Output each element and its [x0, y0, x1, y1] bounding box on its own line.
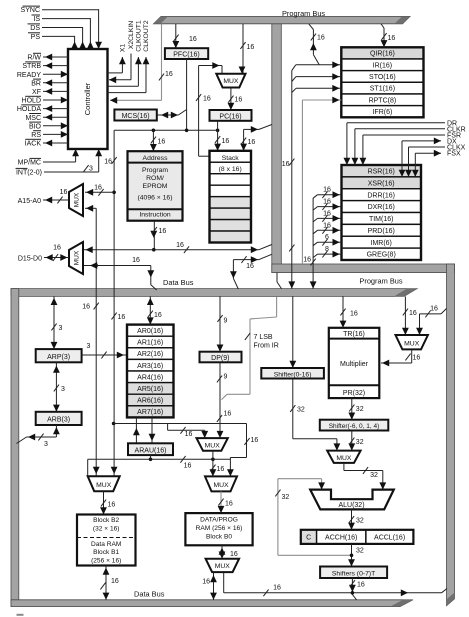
svg-text:32: 32 [282, 494, 290, 501]
wire ACC out [348, 544, 364, 567]
svg-text:16: 16 [203, 96, 211, 103]
signal PS [28, 33, 78, 49]
svg-text:16: 16 [323, 187, 331, 194]
svg-text:HOLD: HOLD [22, 98, 41, 105]
signal READY [17, 71, 68, 79]
svg-text:3: 3 [61, 386, 65, 393]
mux block B2 [88, 476, 120, 491]
svg-text:SYNC: SYNC [21, 7, 40, 14]
program ROM block [128, 151, 183, 221]
wire data bus to tr mux [416, 306, 446, 336]
svg-text:MUX: MUX [336, 455, 352, 462]
svg-text:From IR: From IR [254, 343, 279, 350]
svg-text:PFC(16): PFC(16) [173, 52, 199, 59]
svg-text:AR5(16): AR5(16) [137, 386, 163, 393]
wire DP out [217, 362, 232, 438]
mux bottom data [206, 559, 240, 572]
signal A15-A0 [18, 189, 69, 205]
svg-text:PC(16): PC(16) [219, 113, 241, 120]
svg-text:X1: X1 [120, 44, 127, 53]
signal IACK [25, 139, 68, 147]
svg-text:8: 8 [325, 246, 329, 253]
svg-text:BR: BR [31, 80, 41, 87]
wire stack to program bus [240, 125, 272, 151]
program/data bus bar (middle) [11, 289, 417, 297]
svg-text:16: 16 [251, 437, 259, 444]
svg-text:MCS(16): MCS(16) [122, 113, 150, 120]
signal DR [344, 120, 458, 165]
mux alu [327, 451, 360, 463]
block shifter -6014 [320, 420, 389, 431]
svg-text:16: 16 [82, 304, 90, 311]
wire ARP to ARB [53, 362, 65, 412]
wire data line to program bus [84, 242, 272, 253]
register DP [200, 352, 242, 363]
svg-text:16: 16 [158, 139, 166, 146]
signal CLKOUT1 [108, 20, 143, 86]
data bus bottom slab [11, 600, 413, 607]
svg-text:16: 16 [159, 228, 167, 235]
svg-text:16: 16 [357, 582, 365, 589]
svg-text:AR3(16): AR3(16) [137, 363, 163, 370]
svg-text:32: 32 [370, 472, 378, 479]
wire PR out [348, 398, 363, 420]
signal R/W [27, 53, 68, 61]
signal HOLD [22, 96, 68, 104]
block shifter 0-16 [261, 368, 324, 379]
svg-text:32: 32 [356, 439, 364, 446]
signal X2/CLKIN [109, 21, 135, 83]
svg-text:READY: READY [17, 72, 41, 79]
svg-text:3: 3 [44, 441, 48, 448]
signal BIO [29, 122, 68, 130]
svg-text:16: 16 [430, 306, 438, 313]
wire AR to ARAU left [133, 417, 140, 443]
mux data out [69, 242, 83, 274]
signal HOLDA [17, 105, 68, 113]
svg-text:Shifter(-6, 0, 1, 4): Shifter(-6, 0, 1, 4) [329, 423, 380, 430]
mux program counter [216, 74, 245, 88]
svg-text:STO(16): STO(16) [369, 74, 396, 81]
svg-text:RS: RS [31, 132, 41, 139]
svg-text:Data Bus: Data Bus [163, 278, 194, 287]
svg-text:IMR(6): IMR(6) [371, 240, 392, 247]
svg-text:16: 16 [104, 159, 112, 166]
svg-text:Block B2: Block B2 [93, 517, 119, 524]
svg-text:16: 16 [108, 502, 116, 509]
signal DX [399, 138, 457, 177]
wire bottom data line [224, 572, 447, 596]
svg-text:16: 16 [60, 189, 68, 196]
wire PC to stack [214, 121, 229, 151]
signal FSR [360, 133, 462, 166]
wire mux to ALU [344, 463, 386, 490]
wire bus to tr mux [402, 296, 417, 335]
data bus top arm slab [272, 264, 455, 273]
wire to address rom [150, 130, 165, 151]
register PC [210, 110, 252, 121]
wire ARB to data bus [17, 425, 60, 448]
signal MP/MC [18, 149, 79, 167]
block B0 RAM [185, 513, 252, 545]
signal STRB [22, 62, 68, 70]
svg-text:16: 16 [111, 578, 119, 585]
svg-text:6: 6 [325, 234, 329, 241]
wire to RPTC [302, 97, 341, 264]
data bus left slab [11, 289, 19, 607]
register ARB [36, 412, 82, 425]
svg-text:IS: IS [33, 16, 40, 23]
svg-text:IFR(6): IFR(6) [372, 109, 392, 116]
svg-text:MUX: MUX [213, 482, 229, 489]
svg-text:Program: Program [142, 167, 168, 174]
wire shifters to data bus [349, 578, 365, 600]
wire shifter out [348, 431, 363, 451]
svg-text:MUX: MUX [96, 482, 112, 489]
signal DS [28, 24, 87, 49]
svg-text:AR7(16): AR7(16) [137, 409, 163, 416]
wire address line [114, 129, 219, 133]
caption fragment [17, 614, 24, 616]
svg-text:MUX: MUX [205, 442, 221, 449]
svg-text:RPTC(8): RPTC(8) [369, 97, 397, 104]
svg-text:16: 16 [350, 311, 358, 318]
svg-text:16: 16 [202, 579, 210, 586]
svg-text:16: 16 [230, 551, 238, 558]
wire ACC feedback [275, 479, 351, 556]
svg-text:16: 16 [409, 310, 417, 317]
svg-text:AR1(16): AR1(16) [137, 340, 163, 347]
wire to TIM [313, 210, 341, 222]
block B2/B1 RAM [77, 515, 136, 566]
svg-text:9: 9 [224, 318, 228, 325]
svg-text:16: 16 [225, 501, 233, 508]
svg-text:STRB: STRB [22, 63, 41, 70]
svg-text:QIR(16): QIR(16) [370, 51, 395, 58]
svg-text:16: 16 [248, 139, 256, 146]
wire 7 LSB from IR [222, 296, 277, 399]
wire AR to ARAU right [149, 417, 156, 443]
svg-text:MUX: MUX [404, 341, 420, 348]
svg-text:16: 16 [282, 161, 290, 168]
svg-text:Stack: Stack [222, 155, 240, 162]
svg-text:ARB(3): ARB(3) [47, 417, 70, 424]
label 7 LSB [254, 334, 279, 350]
wire V2 to A mux [85, 185, 114, 196]
wire bus to DP [217, 296, 228, 351]
svg-text:ACCL(16): ACCL(16) [374, 535, 405, 542]
wire tr mux to multiplier [381, 349, 420, 366]
svg-text:DATA/PROG: DATA/PROG [200, 517, 238, 524]
accumulator C/ACCH/ACCL [301, 530, 414, 544]
ALU [310, 490, 394, 510]
register file AR0-AR7 [127, 325, 174, 418]
svg-text:16: 16 [176, 242, 184, 249]
svg-text:ARAU(16): ARAU(16) [135, 447, 167, 454]
svg-text:HOLDA: HOLDA [17, 106, 41, 113]
wire MCS link [157, 110, 187, 119]
svg-text:GREG(8): GREG(8) [367, 252, 396, 259]
svg-text:IACK: IACK [25, 141, 42, 148]
svg-text:Shifters (0-7)T: Shifters (0-7)T [332, 570, 375, 577]
svg-text:(8 x 16): (8 x 16) [219, 166, 242, 173]
wire B1 to data bus [100, 566, 118, 600]
wire local data line [88, 456, 231, 476]
svg-text:Block B1: Block B1 [93, 549, 119, 556]
svg-text:PR(32): PR(32) [343, 390, 365, 397]
register file QIR/IR/ST [341, 47, 423, 117]
wire ALU out [348, 509, 364, 529]
svg-text:16: 16 [189, 36, 197, 43]
label data bus bottom [134, 590, 165, 599]
wire stack pop to mux [196, 62, 222, 156]
wire IR join down [282, 70, 295, 288]
svg-text:X2CLKIN: X2CLKIN [128, 21, 135, 49]
wire instruction out [150, 221, 166, 252]
block ARAU [128, 443, 173, 455]
register file RSR..GREG [342, 165, 422, 260]
signal CLKOUT2 [108, 20, 151, 92]
wire to DRR [313, 187, 341, 199]
signal D15-D0 [18, 245, 69, 263]
wire bus to PFC [172, 24, 196, 48]
svg-text:XF: XF [32, 89, 41, 96]
wire register group down [303, 198, 316, 289]
block shifters 0-7 [320, 567, 387, 579]
svg-text:R/W: R/W [27, 55, 41, 62]
svg-text:TR(16): TR(16) [343, 331, 365, 338]
svg-text:16: 16 [247, 44, 255, 51]
svg-text:16: 16 [323, 199, 331, 206]
wire AR data line [114, 424, 259, 477]
svg-text:16: 16 [413, 355, 421, 362]
svg-text:16: 16 [53, 245, 61, 252]
wire mux to B2 [100, 491, 115, 514]
wire bus to mux [239, 24, 255, 74]
wire mux to B0 [218, 491, 233, 513]
svg-text:16: 16 [323, 210, 331, 217]
svg-text:Block B0: Block B0 [206, 534, 232, 541]
svg-text:Instruction: Instruction [139, 212, 171, 219]
signal RS [31, 131, 68, 139]
block TR/Multiplier/PR [329, 328, 380, 398]
svg-text:(4096 × 16): (4096 × 16) [138, 195, 173, 202]
svg-text:16: 16 [185, 431, 193, 438]
svg-text:MUX: MUX [74, 250, 81, 265]
svg-text:CLKOUT2: CLKOUT2 [143, 20, 150, 52]
label program bus middle [359, 277, 402, 286]
svg-text:CLKOUT1: CLKOUT1 [136, 20, 143, 52]
signal SYNC [21, 6, 102, 49]
wire to IMR [313, 234, 341, 246]
svg-text:16: 16 [235, 97, 243, 104]
wire to ST1 [292, 85, 342, 93]
svg-text:MUX: MUX [215, 563, 231, 570]
wire slab link [277, 273, 282, 289]
svg-text:16: 16 [303, 257, 311, 264]
svg-text:16: 16 [388, 35, 396, 42]
svg-text:BIO: BIO [29, 123, 42, 130]
mux multiplier [396, 335, 428, 349]
svg-text:MSC: MSC [25, 115, 41, 122]
wire to STO [292, 73, 342, 81]
mux address out [69, 184, 83, 216]
svg-text:16: 16 [246, 263, 254, 270]
svg-text:32: 32 [356, 518, 364, 525]
svg-text:16: 16 [184, 463, 192, 470]
wire V1 line [82, 205, 99, 476]
signal IS [32, 15, 94, 49]
svg-text:ROM/: ROM/ [146, 175, 164, 182]
svg-text:16: 16 [118, 314, 126, 321]
wire bus to AR file [147, 296, 162, 324]
mux ar/dp [197, 438, 228, 451]
svg-text:RSR(16): RSR(16) [368, 169, 395, 176]
wire IR bus link [309, 24, 325, 65]
wire PFC down [186, 59, 188, 130]
signal BR [31, 79, 68, 87]
svg-text:16: 16 [217, 466, 225, 473]
svg-text:DRR(16): DRR(16) [367, 192, 395, 199]
wire AR branch to mux [168, 424, 208, 439]
register ARP [36, 349, 82, 362]
program bus slab (vertical center) [272, 20, 282, 273]
svg-text:Program Bus: Program Bus [359, 277, 402, 286]
svg-text:FSX: FSX [447, 151, 461, 158]
wire B0 to mux [219, 545, 238, 558]
stack block [210, 151, 252, 243]
svg-text:Multiplier: Multiplier [340, 361, 369, 368]
svg-text:3: 3 [59, 325, 63, 332]
svg-text:EPROM: EPROM [143, 183, 168, 190]
signal CLKR [352, 126, 466, 165]
wire to IR [292, 61, 342, 70]
label data bus middle [163, 278, 194, 287]
wire V2 line [104, 130, 125, 476]
wire data to D mux [84, 257, 157, 290]
program bus slab (top) [154, 16, 411, 23]
svg-text:ST1(16): ST1(16) [370, 86, 395, 93]
signal MSC [25, 114, 68, 122]
controller U1 [68, 49, 108, 149]
svg-text:AR2(16): AR2(16) [137, 351, 163, 358]
register MCS [114, 110, 156, 121]
svg-text:9: 9 [224, 374, 228, 381]
svg-text:RAM (256 × 16): RAM (256 × 16) [196, 525, 243, 532]
svg-text:AR4(16): AR4(16) [137, 374, 163, 381]
svg-text:DS: DS [30, 25, 40, 32]
wire shifter016 out [290, 379, 340, 451]
signal X1 [108, 44, 127, 73]
svg-text:XSR(16): XSR(16) [368, 180, 395, 187]
svg-text:16: 16 [222, 138, 230, 145]
svg-text:Data RAM: Data RAM [91, 541, 121, 548]
wire bottom mux to bus [202, 572, 217, 600]
signal FSX [412, 150, 461, 177]
data bus right slab [447, 264, 455, 606]
svg-text:PRD(16): PRD(16) [368, 228, 395, 235]
register PFC [165, 48, 208, 59]
svg-text:16: 16 [224, 411, 232, 418]
svg-text:32: 32 [356, 406, 364, 413]
svg-text:3: 3 [89, 166, 93, 173]
label program bus top [282, 9, 325, 18]
wire to GREG [313, 246, 341, 258]
svg-text:ARP(3): ARP(3) [47, 354, 70, 361]
svg-text:C: C [306, 535, 311, 542]
wire ARP to AR file [82, 343, 127, 358]
svg-text:DXR(16): DXR(16) [368, 204, 395, 211]
svg-text:32: 32 [356, 548, 364, 555]
svg-text:TIM(16): TIM(16) [369, 216, 394, 223]
wire to DXR [313, 199, 341, 211]
signal XF [32, 88, 68, 96]
mux block B0 [205, 476, 237, 491]
wire bus to TR [340, 296, 358, 327]
svg-text:MP/MC: MP/MC [18, 160, 41, 167]
svg-text:INT(2-0): INT(2-0) [16, 170, 42, 177]
wire armux out [210, 451, 225, 477]
svg-text:16: 16 [94, 185, 102, 192]
svg-text:16: 16 [273, 585, 281, 592]
wire bus to shifter016 [289, 296, 296, 368]
wire to PRD [313, 222, 341, 234]
svg-text:A15-A0: A15-A0 [18, 198, 41, 205]
svg-text:16: 16 [165, 71, 173, 78]
svg-text:PS: PS [31, 34, 41, 41]
wire bus to ARP [51, 296, 63, 349]
svg-text:Address: Address [143, 155, 169, 162]
svg-text:16: 16 [132, 257, 140, 264]
svg-text:ALU(32): ALU(32) [338, 502, 364, 509]
svg-text:16: 16 [317, 35, 325, 42]
svg-text:Program Bus: Program Bus [282, 9, 325, 18]
svg-text:32: 32 [297, 407, 305, 414]
svg-text:D15-D0: D15-D0 [18, 255, 42, 262]
svg-text:MUX: MUX [223, 78, 239, 85]
svg-text:16: 16 [323, 222, 331, 229]
svg-text:MUX: MUX [74, 192, 81, 207]
wire mux to PC [228, 88, 243, 111]
svg-text:Controller: Controller [83, 82, 92, 115]
svg-text:DP(9): DP(9) [211, 355, 229, 362]
svg-text:7 LSB: 7 LSB [254, 334, 273, 341]
svg-text:3: 3 [87, 343, 91, 350]
svg-text:ACCH(16): ACCH(16) [325, 535, 357, 542]
wire ARAU out [150, 455, 152, 459]
svg-text:IR(16): IR(16) [373, 62, 392, 69]
svg-text:Data Bus: Data Bus [134, 590, 165, 599]
signal CLKX [405, 145, 466, 177]
wire data bus branch [230, 254, 272, 289]
wire bus to QIR [381, 24, 396, 48]
svg-text:(256 × 16): (256 × 16) [91, 558, 121, 565]
svg-text:16: 16 [154, 312, 162, 319]
svg-text:(32 × 16): (32 × 16) [93, 526, 120, 533]
svg-text:AR0(16): AR0(16) [137, 328, 163, 335]
wire program bus to controller [110, 24, 173, 104]
svg-text:AR6(16): AR6(16) [137, 398, 163, 405]
signal INT(2-0) [16, 149, 103, 177]
svg-text:Shifter(0-16): Shifter(0-16) [274, 371, 312, 378]
